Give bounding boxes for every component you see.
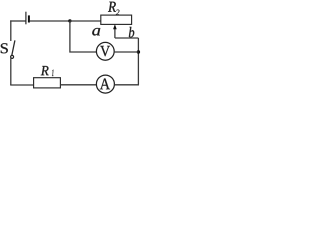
background	[0, 0, 144, 97]
rheostat R2 body box	[101, 15, 132, 24]
label R2	[108, 2, 116, 12]
wire A to bottom right corner	[114, 84, 139, 86]
wire top-left horizontal (battery left lead)	[10, 20, 26, 22]
resistor R1 body box	[34, 78, 61, 88]
label b	[129, 27, 134, 38]
wire V to right junction	[114, 51, 138, 53]
label R1	[41, 66, 49, 75]
battery cell long plate (+)	[25, 12, 27, 25]
voltmeter V letter	[100, 46, 110, 56]
voltmeter V circle	[96, 42, 114, 60]
ammeter A letter	[100, 79, 110, 90]
wire right edge vertical (wiper to ammeter row)	[137, 38, 139, 85]
rheostat wiper arrow	[114, 29, 116, 38]
label a	[92, 28, 100, 36]
wire R1 to ammeter A	[60, 84, 96, 86]
wire node to rheostat R2 left terminal	[70, 20, 101, 22]
wire left edge upper (to switch)	[10, 20, 12, 41]
wire bottom left (corner to R1)	[10, 84, 33, 86]
node junction dot top	[68, 19, 71, 22]
wire left edge lower (switch to bottom corner)	[10, 58, 12, 85]
battery cell short thick plate (-)	[28, 15, 30, 22]
label S	[1, 43, 8, 53]
node junction dot right (voltmeter tap)	[137, 50, 140, 53]
wire wiper horizontal to right edge	[115, 37, 138, 39]
ammeter A circle	[96, 75, 114, 93]
switch pivot circle	[11, 55, 14, 58]
switch blade	[12, 40, 15, 55]
wire battery right lead to node	[30, 20, 70, 22]
wire voltmeter branch: node down then right to V	[70, 21, 97, 52]
